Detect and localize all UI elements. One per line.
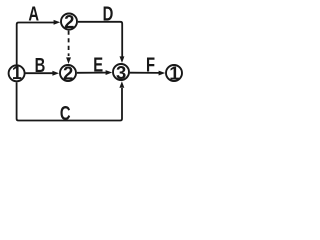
arrowhead dummy into node 2 centre (66, 57, 71, 64)
wire F (node 3 to node 1 right) (130, 72, 159, 74)
svg-text:1: 1 (12, 63, 22, 83)
wire B (node 1 to node 2 centre) (26, 72, 54, 74)
wire A path (node 1 up and across to node 2 top) (17, 23, 56, 65)
svg-text:A: A (28, 2, 39, 25)
svg-text:1: 1 (169, 62, 179, 83)
svg-text:C: C (60, 102, 71, 125)
svg-text:2: 2 (63, 62, 73, 83)
node 3 (event circle) (113, 64, 129, 80)
node 1 left (event circle) (9, 65, 25, 81)
svg-text:F: F (146, 53, 155, 76)
svg-text:B: B (35, 54, 46, 77)
node 2 top (event circle) (61, 14, 77, 30)
arrowhead E into node 3 (106, 70, 113, 75)
arrowhead F into node 1 right (159, 71, 166, 76)
wire D path (node 2 top across and down to node 3) (78, 22, 122, 57)
arrowhead A into node 2 (54, 20, 61, 25)
dummy activity dashed wire (node 2 top down to node 2 centre) (68, 31, 70, 56)
svg-text:D: D (103, 2, 114, 25)
wire E (node 2 centre to node 3) (77, 72, 106, 74)
arrowhead C into node 3 (119, 81, 124, 88)
wire C path (node 1 down, across bottom, up to node 3) (17, 82, 122, 120)
node 2 centre (event circle) (60, 65, 76, 81)
svg-text:2: 2 (64, 11, 74, 32)
arrowhead D into node 3 (120, 56, 125, 63)
svg-text:3: 3 (116, 62, 126, 83)
arrowhead B into node 2 centre (52, 71, 59, 76)
node 1 right (event circle) (166, 65, 182, 81)
svg-text:E: E (93, 53, 103, 76)
